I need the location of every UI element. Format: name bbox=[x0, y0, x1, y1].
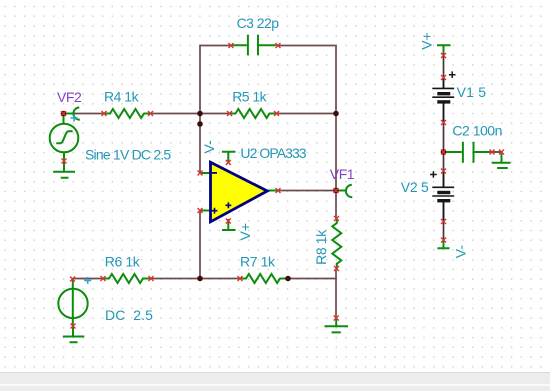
wire battery V2 to V- terminal bbox=[443, 201, 445, 240]
battery V1 bbox=[432, 71, 455, 122]
opamp noninverting input pin bbox=[200, 210, 211, 212]
x VF2 node bbox=[61, 111, 66, 116]
svg-text:R5 1k: R5 1k bbox=[232, 89, 267, 105]
vf1 probe hook bbox=[346, 185, 352, 197]
x R6 left bbox=[101, 276, 106, 281]
sine source VG1 circle bbox=[50, 124, 79, 153]
opamp plus sign noninverting input bbox=[212, 208, 218, 214]
wire R7 node to R8 vertical bbox=[288, 278, 337, 280]
svg-text:Sine 1V DC 2.5: Sine 1V DC 2.5 bbox=[85, 147, 171, 163]
svg-text:R4 1k: R4 1k bbox=[104, 89, 140, 105]
x sine bottom bbox=[62, 159, 67, 164]
op-amp U1 triangle bbox=[211, 162, 268, 222]
wire top C3 right bbox=[278, 45, 335, 47]
node bottom plus input bbox=[197, 276, 203, 282]
resistor R4 bbox=[104, 109, 151, 118]
svg-text:V+: V+ bbox=[237, 223, 253, 241]
wire node to R7 bbox=[200, 278, 240, 280]
wire DC source to R6 bbox=[73, 278, 104, 280]
vf1 probe lead bbox=[336, 190, 346, 192]
x rail above V2 bbox=[441, 169, 446, 174]
wire VF1 to R8 bbox=[335, 191, 337, 219]
x R8 top bbox=[334, 216, 339, 221]
x noninverting input bbox=[198, 208, 203, 213]
dc source vertical line and pins bbox=[72, 279, 74, 326]
node feedback lower dot bbox=[197, 121, 203, 127]
opamp output pin bbox=[267, 190, 278, 192]
battery V2 bbox=[430, 171, 454, 221]
opamp V+ power pin with T terminal bbox=[222, 219, 236, 230]
x DC top bbox=[70, 277, 75, 282]
wire node to battery V2 bbox=[443, 152, 445, 187]
svg-text:V-: V- bbox=[452, 245, 468, 259]
plus sine source bbox=[71, 115, 78, 122]
ground below sine source bbox=[53, 162, 75, 178]
x R5 left bbox=[227, 111, 232, 116]
node R7 right bbox=[285, 276, 291, 282]
opamp plus sign V+ indicator bbox=[226, 202, 232, 208]
node feedback upper bbox=[197, 111, 203, 117]
x output pin bbox=[276, 188, 281, 193]
capacitor C2 bbox=[446, 142, 491, 163]
x R7 left bbox=[238, 276, 243, 281]
x R6 right bbox=[149, 276, 154, 281]
x R4 left bbox=[102, 111, 107, 116]
node R5 right bbox=[333, 111, 339, 117]
svg-text:V+: V+ bbox=[419, 32, 435, 50]
wire plus input vertical bbox=[199, 211, 201, 279]
wire C2 to ground bbox=[491, 151, 502, 153]
ground right of C2 bbox=[492, 152, 511, 168]
x R4 right bbox=[148, 111, 153, 116]
svg-text:U2 OPA333: U2 OPA333 bbox=[240, 145, 306, 161]
ground below R8 bbox=[325, 318, 349, 332]
x R5 right bbox=[274, 111, 279, 116]
terminal V- bottom bbox=[438, 240, 450, 248]
svg-text:R7 1k: R7 1k bbox=[240, 254, 276, 270]
svg-text:C3 22p: C3 22p bbox=[237, 15, 280, 31]
svg-text:VF1: VF1 bbox=[330, 166, 355, 182]
x inverting input bbox=[198, 171, 203, 176]
wire R5 to right vertical bbox=[277, 113, 337, 115]
wire R4 to node bbox=[151, 113, 201, 115]
supply rail wires bbox=[444, 52, 502, 240]
opamp minus sign inverting input bbox=[212, 172, 217, 174]
x rail below V2 bbox=[441, 219, 446, 224]
resistor R5 bbox=[230, 109, 277, 118]
x opamp V- pin bbox=[226, 160, 231, 165]
wire R8 to ground bbox=[335, 269, 337, 319]
svg-text:V1 5: V1 5 bbox=[457, 84, 487, 100]
x R8 bottom bbox=[334, 266, 339, 271]
x C2 right bbox=[490, 150, 495, 155]
wire right vertical top bbox=[335, 45, 337, 191]
resistor R8 bbox=[332, 219, 341, 269]
svg-text:R8 1k: R8 1k bbox=[313, 229, 329, 265]
node VF2 input bbox=[61, 111, 67, 117]
terminal V+ top bbox=[437, 45, 451, 53]
vf2 probe lead bbox=[64, 113, 76, 115]
opamp inverting input pin bbox=[200, 172, 211, 174]
x rail below V1 bbox=[441, 120, 446, 125]
svg-text:DC 2.5: DC 2.5 bbox=[105, 307, 153, 323]
x VF1 node bbox=[334, 188, 339, 193]
x opamp V+ pin bbox=[226, 219, 231, 224]
svg-text:R6 1k: R6 1k bbox=[105, 254, 141, 270]
wire top C3 left bbox=[200, 45, 231, 47]
svg-text:C2 100n: C2 100n bbox=[452, 122, 502, 138]
wire left vertical to inverting input bbox=[199, 45, 201, 173]
sine source top pin bbox=[63, 114, 65, 124]
x C3 right bbox=[276, 43, 281, 48]
node VF1 output bbox=[333, 188, 339, 194]
vf2 probe hook bbox=[73, 107, 79, 119]
sine source waveform bbox=[56, 131, 72, 143]
node supply mid bbox=[441, 149, 447, 155]
plus dc source bbox=[84, 277, 91, 284]
resistor R6 bbox=[103, 274, 151, 283]
opamp V- power pin with T terminal bbox=[222, 152, 236, 164]
wire battery V1 to node bbox=[443, 102, 445, 152]
resistor R7 bbox=[240, 274, 288, 283]
svg-text:V2 5: V2 5 bbox=[401, 179, 429, 195]
wire R6 to node bbox=[151, 278, 200, 280]
wire VF2 node to R4 bbox=[64, 113, 105, 115]
x C2 ground bbox=[499, 150, 504, 155]
bottom bar bbox=[0, 372, 550, 391]
svg-text:VF2: VF2 bbox=[57, 89, 82, 105]
wire opamp output to VF1 node bbox=[278, 190, 336, 192]
wire node to R5 bbox=[200, 113, 230, 115]
wire V+ terminal to battery V1 bbox=[443, 52, 445, 88]
x R8 ground bbox=[334, 316, 339, 321]
ground below dc source bbox=[63, 326, 85, 342]
x C3 left bbox=[229, 43, 234, 48]
sine source bottom pin bbox=[63, 152, 65, 161]
svg-text:V-: V- bbox=[201, 140, 217, 154]
x rail below Vplus bbox=[441, 53, 446, 58]
x rail above Vminus bbox=[441, 238, 446, 243]
x DC bottom bbox=[71, 324, 76, 329]
x rail above V1 bbox=[441, 75, 446, 80]
capacitor C3 bbox=[231, 35, 277, 56]
x rail node bbox=[441, 150, 446, 155]
dc source VS1 circle bbox=[58, 289, 87, 318]
